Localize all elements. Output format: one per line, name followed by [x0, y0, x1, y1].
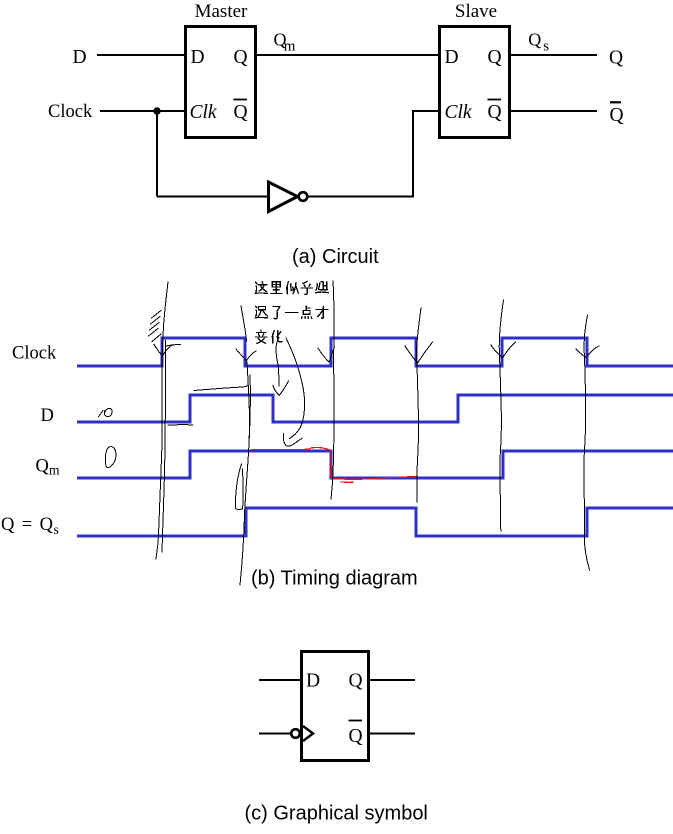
flip-flop U1 Master box [186, 27, 256, 138]
char yan [316, 281, 329, 293]
wire clock input [259, 733, 291, 735]
pencil scribble near Qm label [105, 447, 116, 468]
wire rise to slave clk [412, 110, 414, 198]
char si [286, 282, 298, 294]
waveform D [77, 395, 673, 422]
svg-text:D: D [306, 671, 320, 692]
svg-text:Clock: Clock [12, 344, 57, 364]
svg-text:m: m [284, 39, 296, 55]
svg-text:s: s [543, 39, 549, 55]
pencil check at clock rise 1 [154, 345, 173, 357]
svg-text:Q = Q: Q = Q [1, 515, 54, 535]
svg-text:D: D [445, 47, 459, 68]
wire Qbar output [370, 733, 415, 735]
pencil arrow B [286, 338, 305, 439]
char li [271, 282, 282, 294]
waveform Clock [77, 338, 673, 366]
clock bubble [291, 729, 300, 738]
pencil arrow A [276, 338, 279, 387]
wire Qbar output [511, 110, 597, 112]
wire D input [97, 54, 184, 56]
waveform Q=Qs [77, 508, 673, 536]
svg-text:Master: Master [195, 1, 248, 22]
svg-text:(a) Circuit: (a) Circuit [292, 246, 379, 268]
junction node [153, 107, 160, 114]
wire Q output [370, 679, 415, 681]
pencil check at clock fall 2 [405, 342, 433, 363]
svg-text:(c) Graphical symbol: (c) Graphical symbol [245, 803, 428, 825]
svg-text:Q: Q [234, 102, 248, 123]
svg-text:Q: Q [609, 48, 623, 69]
clock edge triangle [303, 726, 313, 741]
pencil mark line 6 [584, 315, 590, 570]
inverter gate [269, 182, 298, 212]
svg-text:D: D [73, 47, 87, 68]
svg-text:D: D [41, 406, 54, 426]
svg-text:Q: Q [610, 105, 624, 126]
char hu [301, 281, 313, 294]
waveform Qm [77, 451, 673, 478]
svg-text:Q: Q [488, 47, 502, 68]
chinese annotation line 1 [255, 281, 328, 343]
svg-text:s: s [54, 522, 59, 537]
pencil check at clock fall 1 [236, 349, 256, 361]
flip-flop U2 Slave box [440, 27, 510, 138]
wire Clock input [100, 110, 184, 112]
svg-text:Q: Q [36, 457, 50, 477]
pencil annotations [99, 281, 600, 585]
wire to inverter [157, 196, 268, 198]
svg-text:Q: Q [349, 671, 363, 692]
svg-text:Q: Q [488, 102, 502, 123]
wire clock drop [156, 111, 158, 197]
char yi [286, 312, 298, 314]
svg-text:D: D [191, 47, 205, 68]
svg-text:Q: Q [349, 726, 363, 747]
pencil mark line 1 [156, 282, 168, 559]
pencil mark line 2 [241, 306, 247, 341]
wire Qm net [257, 54, 438, 56]
char hua [272, 331, 282, 343]
pencil check at clock rise 2 [318, 347, 335, 362]
red annotation trace on Qm [251, 448, 418, 483]
pencil check at clock fall 3 [576, 346, 599, 358]
svg-text:Q: Q [528, 30, 541, 50]
pencil stroke below D low [168, 424, 193, 426]
svg-text:Clk: Clk [445, 102, 472, 123]
svg-text:Slave: Slave [455, 1, 497, 22]
wire Q output [511, 54, 597, 56]
chinese annotation line 3 [255, 330, 266, 343]
pencil stroke above D high [194, 385, 249, 390]
pencil mark line 3 [331, 281, 334, 499]
svg-text:Q: Q [234, 47, 248, 68]
char le [273, 307, 280, 319]
pencil check at clock rise 3 [491, 342, 516, 358]
svg-text:m: m [49, 463, 60, 478]
char bian [255, 330, 266, 343]
chinese annotation line 2 [255, 306, 268, 318]
svg-text:Clk: Clk [190, 102, 217, 123]
svg-text:Clock: Clock [48, 102, 93, 122]
flip-flop symbol box [302, 652, 369, 761]
char dian [302, 306, 312, 319]
char chi [255, 306, 268, 318]
svg-text:(b) Timing diagram: (b) Timing diagram [251, 568, 418, 590]
pencil mark line 4 [417, 308, 421, 502]
pencil scribble near D label [99, 408, 113, 416]
wire D input [259, 679, 300, 681]
wire inverter out [308, 196, 415, 198]
char cai [316, 306, 328, 318]
wire into slave clk [413, 110, 438, 112]
char zhe [255, 282, 267, 294]
pencil mark line 5 [499, 300, 503, 531]
pencil hatch ticks [152, 311, 162, 319]
